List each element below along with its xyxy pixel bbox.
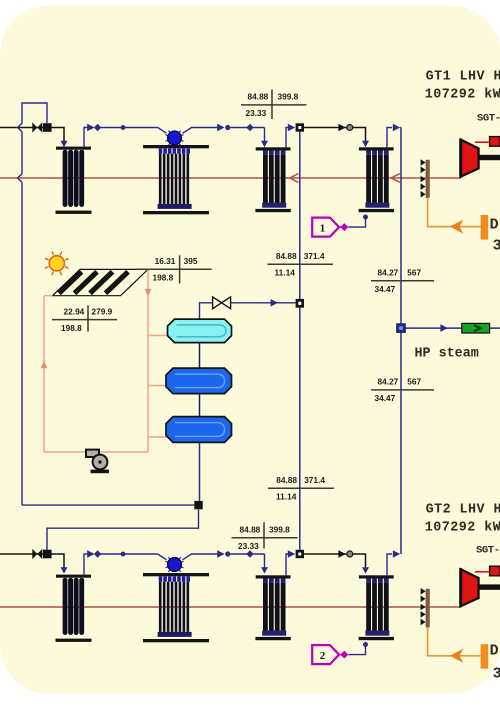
svg-text:198.8: 198.8 (153, 273, 174, 283)
GT2 combustor link (475, 571, 490, 573)
gas flow arrow 2 (391, 174, 400, 183)
junction diamond 2 (246, 550, 253, 557)
GT1 shaft (479, 155, 500, 160)
heat exchanger tube bundle (63, 578, 68, 635)
black transfer wire D to HX4 (304, 128, 366, 142)
evaporator bottom header (158, 632, 192, 637)
flash steam wire (200, 303, 213, 319)
economizer bottom header (365, 203, 389, 208)
svg-text:198.8: 198.8 (61, 323, 82, 333)
stream 1 link (339, 226, 341, 228)
svg-text:371.4: 371.4 (304, 251, 325, 261)
mixer square B (194, 501, 202, 509)
svg-text:D: D (490, 643, 499, 660)
check valve after HX6 (217, 550, 224, 558)
economizer bottom header (262, 631, 286, 636)
economizer bottom header (365, 631, 389, 636)
HP steam transducer (462, 323, 490, 333)
economizer tube caps (366, 579, 371, 583)
GT2 combustor (490, 566, 500, 576)
economizer tube caps (366, 151, 371, 155)
svg-text:279.9: 279.9 (92, 306, 113, 316)
economizer tube bundle (366, 583, 371, 631)
svg-text:399.8: 399.8 (278, 92, 299, 102)
wire to mixer B (22, 504, 194, 506)
damper dot (347, 125, 353, 131)
stream 2 link (339, 654, 341, 656)
stream data rule (232, 537, 298, 539)
junction diamond (246, 124, 253, 131)
economizer bottom bar (359, 209, 394, 212)
svg-text:SGT-: SGT- (476, 544, 500, 556)
evaporator tube caps (159, 148, 163, 153)
flash drum 1 (cyan) (168, 319, 232, 343)
GT2 exhaust grille bar (426, 589, 430, 628)
wire to evaporator drum (101, 127, 158, 129)
drum inlet dip 2 (158, 554, 167, 560)
steam drum (168, 131, 182, 145)
economizer top header bar (359, 575, 394, 578)
economizer bottom header (262, 203, 286, 208)
svg-text:23.33: 23.33 (246, 108, 267, 118)
splitter square E (296, 550, 304, 558)
gas turbine GT1 (461, 140, 479, 177)
arrow toward HP riser 2 (393, 550, 400, 558)
fuel meter square C (43, 550, 52, 559)
solar collector panels (59, 272, 82, 293)
svg-text:84.88: 84.88 (240, 525, 261, 535)
economizer bottom bar (255, 637, 290, 640)
recirculation loop wire (22, 103, 47, 123)
svg-text:371.4: 371.4 (304, 475, 325, 485)
gas turbine GT2 (461, 569, 479, 606)
drum feed branch 3 (148, 436, 167, 438)
svg-text:HP steam: HP steam (415, 346, 479, 361)
HP steam junction square (397, 324, 405, 332)
arrow toward HP riser (393, 124, 400, 132)
check valve after HX5 (87, 550, 94, 558)
GT1 combustor (490, 137, 500, 147)
arrow into splitter D (288, 124, 295, 132)
svg-text:567: 567 (407, 268, 421, 278)
fuel shutoff bowtie (32, 122, 37, 132)
GT1 fuel arrow (450, 220, 463, 234)
gas line GT1 exhaust (0, 177, 461, 179)
arrow on transfer wire (338, 124, 345, 132)
riser from HX7 (286, 554, 288, 575)
check valve after HX1 (87, 124, 94, 132)
evaporator casing bottom bar (143, 639, 209, 642)
riser from HX4 (387, 128, 392, 148)
drum outlet down to mixer B (199, 442, 201, 501)
svg-text:84.88: 84.88 (276, 251, 297, 261)
economizer tube bundle (263, 583, 268, 631)
HP steam main vertical (400, 128, 402, 324)
svg-text:23.33: 23.33 (238, 541, 259, 551)
svg-text:16.31: 16.31 (155, 256, 176, 266)
economizer top header bar (256, 575, 291, 578)
svg-text:2: 2 (320, 650, 326, 662)
elbow down into HX7 (264, 554, 266, 568)
sun rays (65, 259, 69, 261)
heat exchanger top header bar (56, 147, 91, 150)
evaporator tube bundle (159, 582, 162, 632)
economizer top header bar (359, 147, 394, 150)
riser from HX8 (387, 554, 392, 575)
drum feed branch 2 (148, 385, 167, 387)
drum inlet dip (158, 128, 167, 134)
svg-text:1: 1 (320, 222, 326, 234)
GT1 exhaust grille triangles (421, 159, 426, 166)
GT1 combustor link (475, 141, 490, 143)
svg-text:GT1 LHV H: GT1 LHV H (426, 69, 500, 84)
elbow down into HX3 (264, 128, 266, 142)
arrow into fuel heater 2 (61, 567, 68, 573)
fuel line into HRSG2 (0, 554, 64, 568)
evaporator casing top bar (143, 145, 209, 148)
svg-text:11.14: 11.14 (276, 492, 297, 502)
evaporator tube caps (159, 576, 163, 581)
stream data rule (371, 280, 434, 282)
drum link 2-3 (199, 394, 201, 417)
check valve after HX2 (217, 124, 224, 132)
drum feed branch 1 (148, 335, 168, 337)
svg-text:395: 395 (184, 256, 198, 266)
fuel meter square A (43, 123, 52, 132)
solar loop cold wire (44, 451, 148, 453)
stream data divider (87, 305, 89, 331)
evaporator tube bundle (159, 154, 162, 204)
svg-text:D: D (490, 217, 499, 234)
heat exchanger bottom header bar (56, 639, 92, 642)
flash drum 2 (blue) (166, 368, 232, 394)
solar collector outline (53, 269, 149, 295)
economizer bottom bar (255, 209, 290, 212)
evaporator casing bottom bar (143, 211, 209, 214)
HP steam wire (405, 327, 500, 329)
damper dot 2 (347, 551, 353, 557)
mixer square F (296, 299, 304, 308)
sun (49, 256, 64, 271)
economizer top header bar (256, 147, 291, 150)
stream data divider (179, 255, 181, 283)
svg-text:34.47: 34.47 (375, 393, 396, 403)
stream data rule (136, 268, 212, 270)
evaporator casing top bar (143, 573, 209, 576)
stream tag 1 pentagon (312, 218, 339, 237)
economizer tube caps (263, 151, 268, 155)
heat exchanger tube bundle (63, 150, 68, 207)
economizer bottom bar (359, 637, 394, 640)
solar flow arrow up (41, 361, 48, 368)
wire crossing hop on fuel line (18, 123, 22, 132)
svg-text:84.88: 84.88 (276, 475, 297, 485)
riser from HX1 (84, 128, 88, 147)
stream data rule (268, 263, 334, 265)
wire crossing hop on gas line (18, 174, 22, 183)
black transfer wire E to HX8 (304, 554, 366, 568)
stream data rule (241, 104, 307, 106)
gas flow arrow 1 (290, 174, 299, 183)
fuel shutoff bowtie 2 (32, 549, 37, 559)
steam drum spikes (180, 561, 184, 563)
junction dot under HX8 (363, 642, 368, 647)
gas line GT2 exhaust (0, 606, 461, 608)
GT2 fuel arrow (450, 649, 463, 663)
solar circulating pump (86, 450, 99, 457)
stream data divider (263, 522, 265, 548)
junction dot (121, 125, 126, 130)
svg-text:84.27: 84.27 (378, 268, 399, 278)
wire to HX3 (231, 127, 265, 129)
economizer tube bundle (366, 155, 371, 203)
svg-text:3: 3 (493, 665, 500, 682)
main downcomer vertical x300 (299, 132, 301, 300)
stream data rule (52, 319, 117, 321)
economizer tube caps (263, 579, 268, 583)
svg-text:107292 kW: 107292 kW (425, 521, 500, 536)
drum link 1-2 (199, 343, 201, 369)
steam drum spikes (180, 135, 184, 137)
svg-text:3: 3 (493, 237, 500, 254)
GT1 fuel source box (481, 215, 489, 240)
stream data divider (271, 90, 273, 120)
HP steam arrow (440, 324, 447, 332)
junction dot 2 (121, 552, 126, 557)
arrow into splitter E (288, 550, 295, 558)
GT2 fuel line (428, 627, 481, 655)
svg-text:22.94: 22.94 (64, 306, 85, 316)
svg-text:399.8: 399.8 (269, 525, 290, 535)
solar flow arrow down (145, 289, 152, 296)
riser from HX3 (286, 128, 288, 148)
GT2 shaft (479, 584, 500, 589)
GT2 exhaust grille triangles (421, 588, 426, 595)
HP riser corner (399, 127, 402, 129)
GT1 exhaust grille bar (426, 160, 430, 198)
arrow down into HX4 (362, 141, 369, 147)
svg-text:107292 kW: 107292 kW (425, 88, 500, 103)
stream data rule (371, 389, 434, 391)
evaporator bottom header (158, 204, 192, 209)
GT1 fuel line (428, 198, 481, 227)
stream tag 2 pentagon (312, 645, 339, 664)
riser from HX5 (84, 554, 88, 575)
GT2 fuel source box (481, 644, 489, 668)
svg-text:GT2 LHV H: GT2 LHV H (426, 502, 500, 517)
flash steam valve (213, 297, 222, 309)
flash steam arrow (271, 299, 278, 307)
svg-text:SGT-: SGT- (477, 112, 500, 124)
wire mixer B to square C (47, 509, 199, 550)
economizer tube bundle (263, 155, 268, 203)
svg-text:84.88: 84.88 (248, 92, 269, 102)
heat exchanger top header bar (56, 575, 91, 578)
stream data rule (268, 487, 334, 489)
svg-text:11.14: 11.14 (275, 267, 296, 277)
svg-text:567: 567 (407, 377, 421, 387)
heat exchanger bottom header bar (56, 211, 92, 214)
solar loop hot wire (136, 268, 148, 270)
junction dot under HX4 (363, 215, 368, 220)
steam drum (168, 558, 182, 572)
flash drum 3 (blue) (166, 417, 232, 443)
arrow into fuel heater (61, 141, 68, 147)
splitter square D (296, 123, 304, 131)
svg-text:34.47: 34.47 (375, 284, 396, 294)
svg-text:84.27: 84.27 (378, 377, 399, 387)
fuel line into HRSG1 (0, 128, 64, 142)
